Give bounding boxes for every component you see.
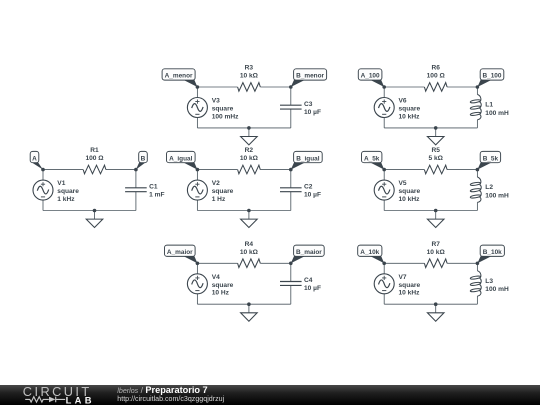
- svg-text:V6: V6: [399, 98, 407, 105]
- svg-text:10 kHz: 10 kHz: [399, 113, 421, 120]
- svg-text:10 kΩ: 10 kΩ: [240, 73, 259, 80]
- wire: right vertical upper, node B to C1: [135, 170, 137, 188]
- svg-text:1 kHz: 1 kHz: [57, 196, 75, 203]
- ground symbol on bottom rail: [241, 128, 258, 145]
- junction: node B_10k: [476, 262, 480, 266]
- svg-text:A: A: [32, 155, 37, 162]
- svg-text:LAB: LAB: [66, 394, 95, 405]
- voltage source V7 value labels (square, 10 kHz): [399, 282, 421, 297]
- node flag B (named net label): [136, 151, 147, 169]
- capacitor C2: [280, 188, 302, 192]
- wire: left vertical lower, V3- to bottom rail: [196, 118, 198, 128]
- wire: top-right horizontal, R4 to node B_maior: [260, 262, 291, 264]
- wire: top-left horizontal, node A_maior to R4: [197, 262, 237, 264]
- svg-text:V7: V7: [399, 274, 407, 281]
- wire: bottom rail: [384, 127, 477, 129]
- capacitor C4: [280, 282, 302, 286]
- logo diode: [49, 397, 55, 403]
- svg-text:B_igual: B_igual: [296, 155, 319, 162]
- junction: ground node on bottom rail: [247, 209, 251, 213]
- wire: left vertical upper, node A_maior to V4+: [196, 263, 198, 274]
- voltage source V5 value labels (square, 10 kHz): [399, 188, 421, 203]
- footer URL: [117, 395, 224, 403]
- svg-text:100 mH: 100 mH: [485, 193, 509, 200]
- svg-text:C2: C2: [304, 184, 313, 191]
- svg-text:10 kΩ: 10 kΩ: [427, 249, 446, 256]
- wire: right vertical upper, node B_10k to L3: [476, 263, 478, 270]
- svg-text:R1: R1: [90, 147, 99, 154]
- junction: node B_5k: [476, 168, 480, 172]
- svg-text:10 µF: 10 µF: [304, 285, 321, 292]
- node flag B_menor (named net label): [291, 69, 327, 87]
- wire: left vertical upper, node A_menor to V3+: [196, 87, 198, 98]
- svg-text:B_5k: B_5k: [483, 155, 499, 162]
- svg-text:square: square: [212, 188, 234, 195]
- node flag B_100 (named net label): [477, 69, 503, 87]
- ground symbol on bottom rail: [427, 304, 444, 321]
- wire: right vertical upper, node B_maior to C4: [290, 263, 292, 281]
- svg-text:A_5k: A_5k: [364, 155, 380, 162]
- node flag B_igual (named net label): [291, 151, 322, 169]
- junction: node A_menor: [196, 85, 200, 89]
- node flag A (named net label): [30, 151, 43, 169]
- node flag A_maior (named net label): [165, 245, 198, 263]
- svg-text:R7: R7: [431, 241, 440, 248]
- inductor L2 (coil): [470, 177, 481, 202]
- svg-text:C3: C3: [304, 101, 313, 108]
- voltage source V3 (square wave source): [187, 98, 207, 118]
- svg-text:B_maior: B_maior: [296, 249, 322, 256]
- svg-text:V4: V4: [212, 274, 220, 281]
- svg-text:100 Ω: 100 Ω: [427, 73, 446, 80]
- resistor R7: [424, 259, 447, 268]
- wire: bottom rail: [384, 303, 477, 305]
- junction: ground node on bottom rail: [247, 126, 251, 130]
- wire: left vertical upper, node A_10k to V7+: [383, 263, 385, 274]
- svg-text:square: square: [399, 106, 421, 113]
- svg-text:square: square: [57, 188, 79, 195]
- svg-text:L2: L2: [485, 184, 493, 191]
- node flag B_maior (named net label): [291, 245, 324, 263]
- wire: top-left horizontal, node A to R1: [43, 169, 83, 171]
- svg-text:100 Ω: 100 Ω: [85, 155, 104, 162]
- footer byline: username / title: [117, 386, 207, 395]
- wire: left vertical upper, node A_100 to V6+: [383, 87, 385, 98]
- svg-text:square: square: [212, 282, 234, 289]
- voltage source V1 (square wave source): [33, 180, 53, 200]
- junction: ground node on bottom rail: [434, 126, 438, 130]
- voltage source V6 (square wave source): [374, 98, 394, 118]
- svg-text:V5: V5: [399, 180, 407, 187]
- voltage source V3 value labels (square, 100 mHz): [212, 106, 239, 121]
- junction: node A_5k: [382, 168, 386, 172]
- wire: right vertical lower, C2 to bottom rail: [290, 192, 292, 211]
- svg-text:10 kHz: 10 kHz: [399, 290, 421, 297]
- wire: right vertical lower, C4 to bottom rail: [290, 285, 292, 304]
- wire: top-right horizontal, R2 to node B_igual: [260, 169, 291, 171]
- voltage source V6 value labels (square, 10 kHz): [399, 106, 421, 121]
- wire: left vertical lower, V2- to bottom rail: [196, 200, 198, 210]
- voltage source V2 (square wave source): [187, 180, 207, 200]
- ground symbol on bottom rail: [86, 211, 103, 228]
- wire: left vertical upper, node A_igual to V2+: [196, 170, 198, 181]
- node flag B_5k (named net label): [477, 151, 500, 169]
- ground symbol on bottom rail: [427, 211, 444, 228]
- wire: right vertical lower, L1 to bottom rail: [476, 120, 478, 128]
- wire: top-left horizontal, node A_menor to R3: [197, 86, 237, 88]
- voltage source V2 value labels (square, 1 Hz): [212, 188, 234, 203]
- svg-text:10 Hz: 10 Hz: [212, 290, 230, 297]
- svg-text:L1: L1: [485, 102, 493, 109]
- svg-text:100 mH: 100 mH: [485, 110, 509, 117]
- wire: right vertical lower, L2 to bottom rail: [476, 202, 478, 210]
- resistor R5: [424, 165, 447, 174]
- svg-text:5 kΩ: 5 kΩ: [428, 155, 443, 162]
- resistor R2: [238, 165, 261, 174]
- inductor L3 (coil): [470, 271, 481, 296]
- svg-text:A_igual: A_igual: [169, 155, 192, 162]
- logo resistor squiggle: [25, 397, 49, 402]
- wire: bottom rail: [197, 210, 290, 212]
- resistor R1: [83, 165, 106, 174]
- wire: top-right horizontal, R3 to node B_menor: [260, 86, 291, 88]
- svg-text:10 µF: 10 µF: [304, 109, 321, 116]
- voltage source V4 value labels (square, 10 Hz): [212, 282, 234, 297]
- voltage source V4 (square wave source): [187, 274, 207, 294]
- junction: node A_maior: [196, 262, 200, 266]
- svg-text:C4: C4: [304, 277, 313, 284]
- node flag A_100 (named net label): [358, 69, 384, 87]
- junction: node B_menor: [289, 85, 293, 89]
- wire: top-left horizontal, node A_100 to R6: [384, 86, 424, 88]
- node flag A_10k (named net label): [358, 245, 385, 263]
- svg-text:10 kHz: 10 kHz: [399, 196, 421, 203]
- node flag A_menor (named net label): [162, 69, 197, 87]
- svg-text:V2: V2: [212, 180, 220, 187]
- capacitor C1: [125, 188, 147, 192]
- svg-text:A_menor: A_menor: [165, 73, 193, 80]
- junction: ground node on bottom rail: [247, 302, 251, 306]
- wire: top-left horizontal, node A_10k to R7: [384, 262, 424, 264]
- svg-text:B_10k: B_10k: [483, 249, 502, 256]
- svg-text:10 µF: 10 µF: [304, 192, 321, 199]
- wire: right vertical lower, C3 to bottom rail: [290, 109, 292, 128]
- voltage source V5 (square wave source): [374, 180, 394, 200]
- junction: node B_maior: [289, 262, 293, 266]
- svg-text:B_100: B_100: [483, 73, 502, 80]
- wire: bottom rail: [197, 303, 290, 305]
- wire: top-left horizontal, node A_5k to R5: [384, 169, 424, 171]
- node flag A_5k (named net label): [362, 151, 385, 169]
- CircuitLab logo: [0, 385, 110, 405]
- svg-text:1 mF: 1 mF: [149, 192, 164, 199]
- svg-text:square: square: [399, 188, 421, 195]
- svg-text:A_10k: A_10k: [360, 249, 379, 256]
- wire: bottom rail: [384, 210, 477, 212]
- junction: node A_100: [382, 85, 386, 89]
- junction: node B_igual: [289, 168, 293, 172]
- wire: left vertical lower, V4- to bottom rail: [196, 294, 198, 304]
- svg-text:square: square: [399, 282, 421, 289]
- voltage source V1 value labels (square, 1 kHz): [57, 188, 79, 203]
- svg-text:100 mH: 100 mH: [485, 286, 509, 293]
- svg-text:R2: R2: [245, 147, 254, 154]
- wire: right vertical upper, node B_menor to C3: [290, 87, 292, 105]
- wire: bottom rail: [197, 127, 290, 129]
- wire: bottom rail: [43, 210, 136, 212]
- wire: right vertical upper, node B_100 to L1: [476, 87, 478, 94]
- wire: right vertical upper, node B_igual to C2: [290, 170, 292, 188]
- wire: left vertical lower, V5- to bottom rail: [383, 200, 385, 210]
- wire: top-right horizontal, R5 to node B_5k: [447, 169, 477, 171]
- ground symbol on bottom rail: [427, 128, 444, 145]
- voltage source V7 (square wave source): [374, 274, 394, 294]
- wire: left vertical upper, node A_5k to V5+: [383, 170, 385, 181]
- svg-text:A_maior: A_maior: [167, 249, 193, 256]
- svg-text:C1: C1: [149, 184, 158, 191]
- footer bar: [0, 385, 540, 405]
- resistor R6: [424, 83, 447, 92]
- junction: node A_10k: [382, 262, 386, 266]
- svg-text:B_menor: B_menor: [296, 73, 324, 80]
- wire: left vertical lower, V6- to bottom rail: [383, 118, 385, 128]
- junction: node A_igual: [196, 168, 200, 172]
- svg-text:V1: V1: [57, 180, 65, 187]
- capacitor C3: [280, 105, 302, 109]
- svg-text:A_100: A_100: [361, 73, 380, 80]
- junction: ground node on bottom rail: [434, 302, 438, 306]
- svg-text:1 Hz: 1 Hz: [212, 196, 226, 203]
- svg-text:V3: V3: [212, 98, 220, 105]
- wire: left vertical lower, V1- to bottom rail: [42, 200, 44, 210]
- svg-text:100 mHz: 100 mHz: [212, 113, 239, 120]
- node flag B_10k (named net label): [477, 245, 504, 263]
- svg-text:R5: R5: [431, 147, 440, 154]
- resistor R3: [238, 83, 261, 92]
- junction: node B: [134, 168, 138, 172]
- wire: top-left horizontal, node A_igual to R2: [197, 169, 237, 171]
- ground symbol on bottom rail: [241, 211, 258, 228]
- svg-text:10 kΩ: 10 kΩ: [240, 249, 259, 256]
- svg-text:L3: L3: [485, 278, 493, 285]
- wire: right vertical upper, node B_5k to L2: [476, 170, 478, 177]
- wire: left vertical lower, V7- to bottom rail: [383, 294, 385, 304]
- ground symbol on bottom rail: [241, 304, 258, 321]
- junction: node A: [41, 168, 45, 172]
- junction: node B_100: [476, 85, 480, 89]
- svg-text:B: B: [141, 155, 146, 162]
- resistor R4: [238, 259, 261, 268]
- svg-text:R3: R3: [245, 65, 254, 72]
- junction: ground node on bottom rail: [434, 209, 438, 213]
- junction: ground node on bottom rail: [93, 209, 97, 213]
- wire: top-right horizontal, R7 to node B_10k: [447, 262, 477, 264]
- svg-text:square: square: [212, 106, 234, 113]
- wire: right vertical lower, C1 to bottom rail: [135, 192, 137, 211]
- inductor L1 (coil): [470, 94, 481, 119]
- wire: left vertical upper, node A to V1+: [42, 170, 44, 181]
- wire: top-right horizontal, R1 to node B: [106, 169, 136, 171]
- svg-text:10 kΩ: 10 kΩ: [240, 155, 259, 162]
- svg-text:R6: R6: [431, 65, 440, 72]
- wire: top-right horizontal, R6 to node B_100: [447, 86, 477, 88]
- node flag A_igual (named net label): [167, 151, 198, 169]
- wire: right vertical lower, L3 to bottom rail: [476, 296, 478, 304]
- svg-text:R4: R4: [245, 241, 254, 248]
